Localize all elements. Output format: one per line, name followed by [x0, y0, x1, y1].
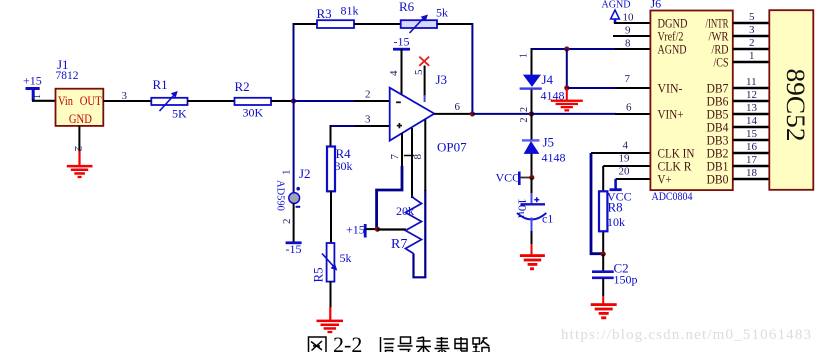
node diode junction: [529, 111, 534, 116]
svg-text:R3: R3: [317, 6, 332, 21]
wire J5 branch: [531, 114, 533, 178]
op-amp U1 OP07: [390, 88, 467, 155]
wire Vref/2 stub (pin9): [613, 35, 650, 37]
svg-text:c1: c1: [542, 212, 553, 226]
wire R1 to R2: [188, 100, 235, 102]
svg-text:2: 2: [281, 219, 293, 225]
wire node A down to J2: [293, 101, 295, 193]
svg-text:8: 8: [625, 38, 631, 50]
wire down to c1: [531, 178, 533, 205]
svg-text:6: 6: [626, 102, 632, 114]
power AGND (arrow): [602, 0, 631, 24]
char 电: [455, 337, 467, 351]
svg-text:20k: 20k: [396, 204, 414, 218]
wire /CS pin1 to 89C52: [733, 50, 770, 62]
svg-text:Vref/2: Vref/2: [658, 29, 684, 43]
svg-text:81k: 81k: [341, 4, 359, 18]
svg-text:19: 19: [619, 153, 631, 165]
power -15 (J2): [286, 241, 302, 256]
temperature sensor J2 AD590: [275, 166, 311, 211]
pin labels 2 2 (J4/J5): [519, 107, 530, 123]
node A junction: [291, 98, 296, 103]
wire op-amp output pin6: [434, 101, 472, 114]
svg-text:AGND: AGND: [658, 42, 687, 56]
ground (R5): [317, 307, 344, 333]
svg-text:VIN-: VIN-: [658, 81, 683, 95]
char 号: [398, 337, 413, 352]
wire right feedback vertical: [471, 23, 473, 114]
wire VIN+ (pin6): [532, 113, 651, 115]
svg-text:5k: 5k: [436, 6, 448, 20]
svg-text:ADC0804: ADC0804: [652, 189, 693, 203]
char 采: [416, 337, 431, 352]
char 路: [473, 338, 490, 352]
svg-text:GND: GND: [69, 111, 92, 126]
wire DB2 pin16 to 89C52: [733, 141, 770, 153]
wire R2 to node A: [271, 100, 294, 102]
wire DB6 pin12 to 89C52: [733, 89, 770, 101]
node VIN- junction: [564, 85, 569, 90]
svg-text:13: 13: [746, 102, 758, 114]
wire R7 bottom loop: [414, 190, 426, 277]
svg-text:+15: +15: [346, 223, 365, 237]
svg-text:J4: J4: [542, 72, 554, 87]
power +15 (R7 wiper): [346, 223, 377, 238]
svg-text:5: 5: [413, 69, 425, 75]
resistor R8 10k: [599, 191, 625, 231]
char 集: [435, 337, 450, 352]
svg-text:J5: J5: [543, 135, 555, 150]
svg-text:AGND: AGND: [602, 0, 631, 11]
svg-text:CLK IN: CLK IN: [658, 146, 695, 160]
svg-text:/RD: /RD: [712, 42, 729, 56]
caption 图 2-2 信号采集电路: [309, 332, 490, 352]
wire op-amp pin4: [401, 49, 403, 95]
wire DB3 pin15 to 89C52: [733, 128, 770, 140]
ground (J1): [67, 151, 93, 178]
svg-text:3: 3: [749, 24, 755, 36]
wire V+ route (pin20): [616, 179, 651, 189]
diode J4 4148: [520, 72, 565, 103]
resistor R6 5k (pot): [399, 0, 448, 33]
wire DB7 pin11 to 89C52: [733, 76, 770, 88]
svg-text:R8: R8: [608, 200, 623, 215]
ground (C2): [591, 303, 617, 319]
svg-text:1: 1: [32, 94, 43, 99]
svg-text:7812: 7812: [56, 70, 79, 82]
power -15 (op-amp V-): [393, 35, 410, 51]
svg-text:14: 14: [746, 115, 758, 127]
svg-text:CLK R: CLK R: [658, 159, 693, 173]
resistor R5 5k (pot): [311, 243, 352, 283]
wire J1 pin2: [78, 126, 80, 152]
wire C2 to ground: [602, 278, 604, 304]
svg-text:6: 6: [455, 101, 461, 113]
svg-text:R7: R7: [391, 237, 407, 252]
wire node to op-amp pin3: [331, 114, 391, 127]
wire DGND (pin10): [614, 22, 650, 24]
pin tick between 7 and 8: [404, 155, 414, 157]
wire /INTR pin5 to 89C52: [733, 11, 770, 23]
wire c1 to ground: [531, 218, 533, 256]
svg-text:1: 1: [281, 170, 293, 176]
svg-text:10u: 10u: [516, 198, 528, 218]
svg-text:1: 1: [519, 53, 530, 58]
svg-text:10k: 10k: [607, 215, 625, 229]
svg-text:11: 11: [746, 76, 757, 88]
svg-text:OP07: OP07: [437, 140, 467, 155]
capacitor C2 150p: [592, 261, 638, 287]
wire node A to op-amp pin2: [294, 89, 391, 102]
wire J2 pin2 to -15: [293, 203, 295, 242]
ground (AGND): [551, 88, 583, 112]
svg-text:DB3: DB3: [707, 133, 729, 147]
svg-text:7: 7: [625, 73, 631, 85]
wire R3 to R6: [354, 23, 401, 25]
wire feedback top to R3: [293, 23, 319, 25]
wire J1 out to R1: [103, 100, 151, 102]
mcu 89C52: [769, 10, 813, 190]
svg-text:4: 4: [623, 140, 629, 152]
svg-text:/CS: /CS: [714, 55, 729, 69]
wire op-amp pin1 down: [424, 120, 426, 192]
wire DB4 pin14 to 89C52: [733, 115, 770, 127]
svg-text:VCC: VCC: [496, 171, 521, 185]
wire CLK IN route (pin4): [591, 153, 650, 254]
svg-text:J2: J2: [299, 166, 311, 181]
resistor R3 81k: [317, 4, 359, 29]
svg-text:DB7: DB7: [707, 81, 729, 95]
svg-text:/WR: /WR: [709, 29, 730, 43]
capacitor c1 10u: [516, 197, 554, 225]
svg-text:17: 17: [746, 154, 758, 166]
svg-text:2-2: 2-2: [333, 332, 362, 352]
adc J6 ADC0804: [650, 0, 732, 203]
svg-text:VIN+: VIN+: [658, 107, 684, 121]
node AGND junction: [564, 46, 569, 51]
svg-text:4: 4: [388, 70, 400, 76]
no-connect X (J3) on pin 5: [419, 57, 447, 87]
svg-text:2: 2: [749, 37, 755, 49]
svg-text:DGND: DGND: [658, 16, 688, 30]
wire R4 to R5: [330, 191, 332, 243]
svg-text:30k: 30k: [335, 159, 353, 173]
svg-text:5k: 5k: [340, 251, 352, 265]
wire DB5 pin13 to 89C52: [733, 102, 770, 114]
svg-text:30K: 30K: [243, 106, 264, 120]
node VCC junction: [529, 175, 534, 180]
svg-text:J3: J3: [436, 72, 448, 87]
svg-text:20: 20: [619, 166, 631, 178]
svg-text:R2: R2: [235, 79, 250, 94]
svg-text:DB1: DB1: [707, 159, 729, 173]
wire op-amp pin5: [424, 66, 426, 97]
svg-text:-15: -15: [286, 242, 302, 256]
svg-text:12: 12: [746, 89, 757, 101]
svg-text:DB4: DB4: [707, 120, 730, 134]
svg-text:J6: J6: [651, 0, 662, 11]
wire /WR pin3 to 89C52: [733, 24, 770, 36]
wire /RD pin2 to 89C52: [733, 37, 770, 49]
svg-text:5: 5: [749, 11, 755, 23]
regulator J1 7812: [56, 57, 104, 126]
svg-text:15: 15: [746, 128, 758, 140]
wire pin3 corner down to R4: [330, 125, 332, 147]
ground (c1): [520, 254, 545, 270]
svg-text:2: 2: [72, 146, 84, 152]
wire R6 to right corner: [437, 23, 472, 25]
wire DB0 pin18 to 89C52: [733, 167, 770, 179]
wire R5 to ground: [330, 282, 332, 308]
svg-text:AD590: AD590: [275, 180, 286, 211]
svg-text:DB2: DB2: [707, 146, 729, 160]
wire wiper to R7: [377, 228, 406, 230]
wire J4 branch: [531, 48, 533, 114]
node clock junction: [601, 251, 606, 256]
svg-text:DB0: DB0: [707, 172, 729, 186]
svg-text:OUT: OUT: [80, 93, 102, 108]
svg-text:16: 16: [746, 141, 758, 153]
char 信: [381, 337, 395, 352]
char 图: [309, 337, 327, 352]
svg-text:1: 1: [749, 50, 755, 62]
power VCC (V+ pin20): [607, 188, 632, 203]
svg-text:R5: R5: [311, 267, 326, 282]
svg-text:2: 2: [519, 107, 530, 112]
svg-text:3: 3: [365, 114, 371, 126]
svg-text:V+: V+: [658, 172, 672, 186]
svg-text:https://blog.csdn.net/m0_51061: https://blog.csdn.net/m0_51061483: [561, 327, 811, 343]
svg-text:Vin: Vin: [58, 93, 73, 108]
resistor R1 5K (pot): [151, 77, 187, 121]
svg-text:18: 18: [746, 167, 758, 179]
svg-text:9: 9: [625, 25, 631, 37]
svg-text:R6: R6: [399, 0, 415, 14]
wire op-amp pin7 route: [377, 133, 402, 229]
svg-text:2: 2: [519, 118, 530, 123]
diode J5 4148: [522, 135, 566, 165]
svg-text:2: 2: [365, 89, 371, 101]
wire feedback vertical left: [293, 23, 295, 101]
wire op-amp pin8: [411, 128, 413, 198]
svg-text:10: 10: [623, 12, 635, 24]
wire DB1 pin17 to 89C52: [733, 154, 770, 166]
wire AGND net top: [532, 48, 651, 50]
svg-text:5K: 5K: [172, 107, 187, 121]
resistor R2 30K: [235, 79, 272, 120]
node R7 wiper junction: [375, 227, 380, 232]
svg-text:7: 7: [389, 154, 401, 160]
wire output to diode node: [472, 113, 531, 115]
svg-text:89C52: 89C52: [781, 69, 810, 142]
wire CLK R route (pin19): [603, 166, 650, 255]
svg-text:150p: 150p: [614, 273, 638, 287]
resistor R4 30k: [327, 146, 353, 191]
potentiometer R7 20k: [391, 196, 422, 254]
wire VIN- (pin7): [567, 87, 651, 89]
power VCC (c1 top): [496, 171, 532, 186]
wire AGND down to VIN-: [566, 49, 568, 88]
svg-text:DB6: DB6: [707, 94, 729, 108]
power +15 (J1 input): [23, 74, 42, 101]
svg-text:8: 8: [412, 154, 424, 160]
node output junction: [470, 111, 475, 116]
svg-text:R1: R1: [153, 77, 168, 92]
wire junction to C2: [602, 254, 604, 271]
wire J1 pin1: [32, 100, 56, 102]
svg-text:/INTR: /INTR: [706, 16, 729, 30]
svg-text:-15: -15: [394, 35, 410, 49]
svg-text:DB5: DB5: [707, 107, 729, 121]
svg-text:+15: +15: [23, 74, 42, 88]
svg-text:4148: 4148: [542, 151, 566, 165]
